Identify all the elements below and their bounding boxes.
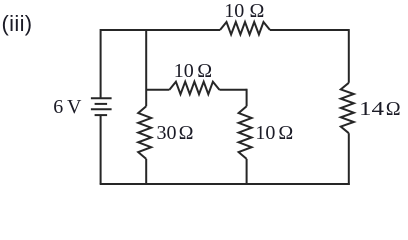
wire: middle branch 1 upper bbox=[145, 29, 147, 106]
wire: left branch lower (battery bottom lead) bbox=[100, 115, 102, 184]
wire: middle branch 2 upper bbox=[246, 89, 248, 107]
wire: top right segment bbox=[270, 29, 349, 31]
wire: right branch lower bbox=[348, 133, 350, 185]
value label 10 ohm (middle branch 2 resistor) bbox=[255, 123, 275, 143]
resistor 10 ohm (top) bbox=[220, 22, 270, 35]
wire: left branch upper (battery top lead) bbox=[100, 29, 102, 98]
resistor 10 ohm (middle branch 2) bbox=[239, 106, 252, 159]
label (iii) bbox=[2, 13, 33, 35]
wire: inner horizontal right segment bbox=[219, 89, 246, 91]
value label 10 ohm (top resistor) bbox=[224, 1, 244, 21]
value label 6 V (battery) bbox=[53, 97, 63, 117]
value label 14 ohm bbox=[359, 99, 384, 119]
wire: middle branch 1 lower bbox=[145, 159, 147, 184]
resistor 30 ohm (middle branch 1) bbox=[138, 106, 151, 159]
battery 6 V: plate 4 short negative bbox=[95, 114, 108, 116]
battery 6 V: plate 1 long positive bbox=[91, 97, 112, 99]
wire: right branch upper bbox=[348, 29, 350, 83]
wire: top left segment bbox=[101, 29, 220, 31]
value label 30 ohm bbox=[157, 123, 177, 143]
wire: inner horizontal left segment bbox=[146, 89, 169, 91]
wire: middle branch 2 lower bbox=[246, 159, 248, 184]
battery 6 V: plate 3 long positive bbox=[91, 108, 112, 110]
resistor 14 ohm (right branch) bbox=[341, 83, 354, 133]
wire: bottom rail bbox=[100, 183, 350, 185]
battery 6 V: plate 2 short negative bbox=[95, 103, 108, 105]
value label 10 ohm (inner horizontal resistor) bbox=[174, 61, 194, 81]
resistor 10 ohm (inner horizontal) bbox=[169, 82, 219, 95]
